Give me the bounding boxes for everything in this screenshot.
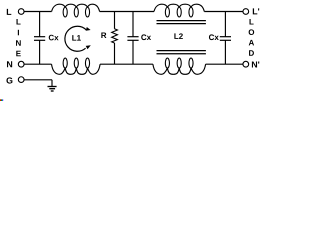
label L1 [72, 35, 81, 41]
wire bottom rail middle [100, 63, 153, 65]
label G [6, 77, 12, 83]
inductor L2 bottom winding [153, 58, 206, 74]
wire bottom rail left [24, 63, 51, 65]
capacitor Cx3 [220, 12, 231, 65]
L1 coupling arrow circle [65, 26, 91, 51]
terminal N-prime [243, 61, 249, 67]
inductor L1 bottom winding [52, 58, 101, 74]
label N [7, 61, 12, 67]
ground [48, 87, 57, 92]
wire bottom rail right [206, 63, 243, 65]
wire ground lead [24, 80, 52, 87]
label L' [253, 8, 259, 14]
wire top rail left [24, 11, 51, 13]
label N' [252, 61, 259, 67]
wire top rail middle [100, 11, 154, 13]
capacitor Cx2 [127, 12, 138, 65]
scan artifact pixels [0, 99, 3, 101]
label R [101, 32, 106, 38]
inductor L1 top winding [52, 4, 100, 17]
label L2 [174, 33, 182, 39]
label LOAD [249, 19, 255, 56]
L2 core lines lower pair [157, 51, 206, 54]
L2 core lines upper pair [157, 21, 206, 24]
resistor R [112, 12, 118, 65]
wire top rail right [204, 11, 243, 13]
terminal L-prime [243, 9, 249, 15]
label Cx1 [49, 35, 59, 41]
label L [7, 9, 12, 15]
terminal L [18, 9, 24, 15]
terminal G [18, 77, 24, 83]
inductor L2 top winding [154, 4, 204, 17]
label LINE [16, 19, 21, 56]
terminal N [18, 61, 24, 67]
capacitor Cx1 [34, 12, 45, 65]
label Cx3 [209, 34, 219, 40]
label Cx2 [141, 34, 151, 40]
